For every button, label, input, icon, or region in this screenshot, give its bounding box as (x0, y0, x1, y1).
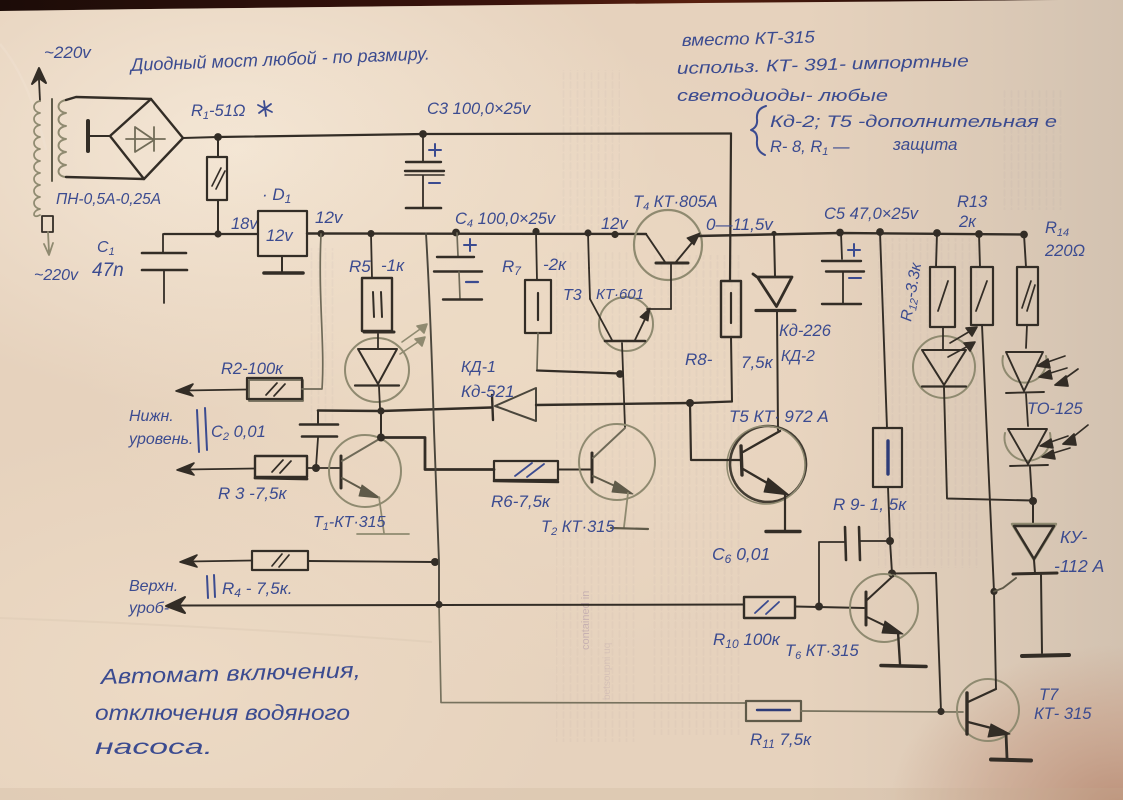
svg-text:0—11,5v: 0—11,5v (706, 215, 774, 234)
wire R2 up to 12v rail (302, 234, 323, 389)
svg-text:Верхн.: Верхн. (129, 578, 178, 595)
resistor R7 (536, 232, 537, 281)
fold crease (0, 618, 432, 642)
svg-text:7,5к: 7,5к (741, 353, 774, 372)
resistor R8 (721, 281, 741, 337)
capacitor C4 (457, 233, 458, 256)
svg-text:КТ·601: КТ·601 (596, 286, 644, 303)
thyristor cathode to ground (1041, 575, 1042, 653)
svg-text:R11 7,5к: R11 7,5к (750, 730, 812, 751)
transformer secondary coil (59, 100, 67, 177)
resistor R1 (217, 137, 219, 157)
svg-text:R 9- 1, 5к: R 9- 1, 5к (833, 495, 907, 514)
svg-text:вместо КТ-315: вместо КТ-315 (682, 28, 816, 50)
transistor T7 (957, 679, 1019, 741)
wire R3 to T1 base (307, 467, 339, 469)
top rail wire (218, 134, 731, 138)
wire T1 collector to R6 (381, 438, 494, 470)
svg-text:C2 0,01: C2 0,01 (211, 423, 266, 443)
svg-text:КУ-: КУ- (1060, 527, 1087, 547)
svg-text:contained in: contained in (580, 591, 592, 650)
svg-text:R10 100к: R10 100к (713, 630, 781, 651)
transistor T2 (579, 424, 655, 500)
svg-text:ТО-125: ТО-125 (1027, 400, 1083, 418)
wire Верхн sensor to R10 (166, 597, 744, 613)
resistor R11 (746, 701, 801, 721)
resistor R12 (936, 233, 937, 267)
svg-text:betsoupni uq: betsoupni uq (602, 643, 613, 700)
wire LED2 down and over (944, 388, 1032, 501)
svg-text:R1-51Ω: R1-51Ω (191, 102, 245, 122)
transistor T3 (599, 297, 653, 351)
wire T7 collector up (994, 592, 996, 689)
wire secondary top to bridge (66, 97, 151, 100)
svg-text:R8-: R8- (685, 350, 713, 369)
LED VD1 diode (377, 334, 379, 348)
svg-text:R2-100к: R2-100к (221, 360, 284, 378)
LED2 diode (942, 327, 944, 349)
svg-text:C3 100,0×25v: C3 100,0×25v (427, 100, 532, 118)
svg-text:КД-1: КД-1 (461, 359, 496, 376)
capacitor C5 (841, 233, 842, 259)
resistor R6 (494, 461, 558, 480)
svg-text:-112 А: -112 А (1054, 556, 1104, 576)
svg-text:R5: R5 (349, 257, 371, 276)
svg-text:Кд-2; Т5 -дополнительная е: Кд-2; Т5 -дополнительная е (770, 113, 1057, 131)
svg-text:Т7: Т7 (1039, 686, 1059, 704)
transistor T1 (329, 435, 401, 507)
svg-text:C5 47,0×25v: C5 47,0×25v (824, 205, 920, 223)
svg-text:светодиоды- любые: светодиоды- любые (677, 86, 888, 105)
resistor R9 (880, 232, 887, 428)
svg-text:Кд-226: Кд-226 (779, 322, 832, 340)
diode bridge diamond (110, 99, 183, 179)
LED2 arrows (948, 327, 977, 357)
wire node to diode KD-521 (318, 408, 491, 412)
svg-text:18v: 18v (231, 215, 259, 233)
svg-text:уроб-: уроб- (128, 600, 169, 617)
svg-text:R 3 -7,5к: R 3 -7,5к (218, 484, 287, 503)
long vertical wire 12v rail to R11 (426, 234, 439, 605)
svg-text:Т5 КТ· 972 А: Т5 КТ· 972 А (729, 407, 829, 426)
LED TO-125 no.1 (1026, 325, 1027, 348)
svg-text:защита: защита (892, 135, 958, 154)
svg-text:~220v: ~220v (34, 267, 79, 284)
LED2 shell (913, 336, 975, 398)
svg-text:12v: 12v (601, 215, 629, 233)
resistor R5 (371, 234, 372, 278)
svg-text:R4 - 7,5к.: R4 - 7,5к. (222, 579, 292, 600)
capacitor C3 (419, 130, 427, 138)
ground D1 (281, 256, 283, 272)
svg-text:ПН-0,5А-0,25А: ПН-0,5А-0,25А (56, 191, 161, 208)
svg-text:КД-2: КД-2 (781, 348, 815, 365)
resistor R10 (744, 597, 795, 618)
svg-text:47n: 47n (92, 260, 124, 281)
diode KD-226 (774, 234, 775, 277)
svg-text:12v: 12v (315, 208, 344, 227)
svg-text:Кд-521: Кд-521 (461, 382, 514, 401)
wire R10 to T6 base (795, 607, 864, 609)
svg-text:R13: R13 (957, 193, 988, 211)
11.5v rail (697, 233, 1025, 236)
12v rail (307, 232, 646, 235)
bridge left terminal bar (86, 121, 90, 151)
transistor T6 (850, 574, 918, 642)
arrow up primary (32, 68, 46, 101)
svg-text:~220v: ~220v (44, 43, 92, 62)
svg-text:Т3: Т3 (563, 287, 582, 304)
svg-text:уровень.: уровень. (128, 431, 193, 448)
fuse on primary lead (42, 216, 53, 232)
svg-text:12v: 12v (266, 227, 294, 245)
wire R7 to T3 base (537, 371, 620, 374)
thyristor KU-112A (1032, 501, 1034, 523)
resistor R4 (180, 555, 252, 567)
svg-text:C6 0,01: C6 0,01 (712, 544, 770, 566)
diode KD-521 (492, 395, 493, 420)
capacitor C2 (317, 411, 319, 424)
svg-text:-1к: -1к (381, 256, 405, 275)
LED VD1 shell (345, 338, 409, 402)
wire 18v node (164, 233, 258, 235)
wire top rail corner down to R8 (730, 134, 731, 282)
wire R6 to T2 base (558, 469, 590, 471)
capacitor C1 (162, 234, 164, 252)
svg-text:R- 8, R1 —: R- 8, R1 — (770, 138, 850, 158)
wire R8 bottom to T5 base node (691, 402, 732, 404)
wire R11 to T7 base (801, 711, 963, 712)
wire diode to T5 node (536, 403, 690, 405)
svg-text:насоса.: насоса. (95, 735, 213, 759)
svg-text:-2к: -2к (543, 255, 567, 274)
label C2 0,01 (197, 408, 207, 452)
wire secondary bottom to bridge (66, 177, 144, 179)
regulator D1 (258, 211, 307, 256)
print-through ghost text columns (308, 70, 1062, 742)
transformer primary coil (34, 101, 40, 216)
transformer core (51, 99, 53, 181)
svg-text:2к: 2к (958, 213, 977, 231)
capacitor C6 (819, 542, 844, 607)
LED TO-125 no.2 (1026, 394, 1028, 426)
node R1 top (214, 133, 222, 141)
wire T6 collector over to T7 base (892, 573, 941, 712)
wire bridge to R1 node (183, 137, 218, 138)
svg-text:отключения водяного: отключения водяного (95, 701, 350, 725)
asterisk mark (258, 101, 272, 116)
LED VD1 arrows (400, 324, 427, 354)
svg-text:Нижн.: Нижн. (129, 408, 174, 425)
svg-text:R6-7,5к: R6-7,5к (491, 492, 551, 511)
svg-text:КТ- 315: КТ- 315 (1034, 705, 1092, 723)
resistor R3 (177, 463, 255, 475)
svg-text:220Ω: 220Ω (1044, 242, 1085, 260)
bridge internal diode (126, 127, 165, 152)
thyristor gate wire (994, 578, 1016, 592)
wire R13 down to T7/gate node (982, 325, 994, 592)
